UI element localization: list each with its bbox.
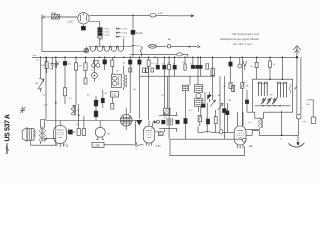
variable capacitor 2 <box>267 98 272 105</box>
wire mains to rectifier <box>60 16 78 18</box>
coil L8 <box>71 105 80 115</box>
svg-text:50: 50 <box>162 95 164 97</box>
scale lamp oval <box>150 14 156 18</box>
svg-text:3,2: 3,2 <box>87 95 90 97</box>
rectifier tube 1 62 <box>68 13 90 24</box>
junction m <box>280 134 283 140</box>
bandfilter hairpin group 2 <box>277 82 288 97</box>
resistor col x213 upper <box>211 68 214 75</box>
capacitor col x164 <box>162 57 166 69</box>
padder rect pair x144 <box>143 68 149 73</box>
svg-text:Gleichspannungen gegen Chassis: Gleichspannungen gegen Chassis <box>220 37 260 41</box>
resistor pair bottom <box>76 124 85 135</box>
wire hop to earth line <box>246 131 298 136</box>
tuner internal rail <box>255 105 291 106</box>
junction top <box>132 15 134 17</box>
resistor col x270 <box>269 57 277 67</box>
svg-text:0,1: 0,1 <box>69 98 72 100</box>
label box L585 <box>92 142 104 147</box>
detector arrow and jack <box>152 120 159 123</box>
resistor col x185 <box>183 57 187 70</box>
resistor col x85 <box>84 57 87 70</box>
wire to tube F40 <box>139 144 143 146</box>
wire col x139 down <box>138 70 140 119</box>
resistor x112 lower <box>111 97 114 109</box>
cathode capacitor blob <box>81 25 85 31</box>
svg-text:1M: 1M <box>79 66 82 68</box>
svg-text:5n: 5n <box>155 63 157 65</box>
wire wavy to bus <box>126 46 142 56</box>
svg-text:3,2: 3,2 <box>43 95 46 97</box>
IF transformer dotbox C upper <box>194 85 202 93</box>
wire to mains indicator <box>133 14 150 16</box>
svg-text:FD: FD <box>270 94 273 96</box>
loudspeaker <box>22 128 35 142</box>
svg-text:An: An <box>134 88 136 91</box>
svg-text:C 20,5: C 20,5 <box>103 29 110 31</box>
coil box left low <box>198 116 201 122</box>
capacitor pair col x96 <box>94 96 98 121</box>
svg-text:1M: 1M <box>218 95 221 97</box>
IF transformer dotbox C lower <box>194 99 202 106</box>
svg-text:o.M.: o.M. <box>44 105 49 107</box>
capacitor labels column <box>116 28 128 39</box>
capacitor dark x224 <box>223 76 227 120</box>
capacitor 5n left <box>97 90 104 108</box>
svg-text:0,1: 0,1 <box>183 62 186 64</box>
capacitor col x185 low <box>184 96 187 139</box>
svg-text:4: 4 <box>302 108 303 110</box>
socket rect right edge <box>303 117 316 123</box>
trimmer col x240 <box>238 57 242 68</box>
wire col x198 <box>197 57 200 112</box>
electrolytic can <box>95 121 111 140</box>
resistor x208 blob <box>206 119 209 124</box>
capacitor col x197 <box>196 65 199 68</box>
wire col x220 down <box>219 76 221 101</box>
tuner pack outline <box>253 79 293 118</box>
svg-text:1n: 1n <box>190 63 192 65</box>
wave trap fork x245 <box>243 61 246 70</box>
svg-text:10n: 10n <box>68 64 71 66</box>
variable capacitor 1 <box>261 98 266 105</box>
wire col x164 down <box>163 66 165 108</box>
output tube right F62b <box>234 120 253 149</box>
svg-text:mm: mm <box>303 121 307 123</box>
oscillator line segment <box>132 44 201 48</box>
fuse Si <box>51 12 60 19</box>
svg-text:Alle Spannungen sind: Alle Spannungen sind <box>232 32 260 36</box>
tone capacitor floating <box>20 107 26 114</box>
tuner right coil squiggle <box>289 84 291 93</box>
svg-text:C 20,5: C 20,5 <box>103 34 110 36</box>
note text block <box>220 32 260 46</box>
svg-text:L 585: L 585 <box>93 143 100 147</box>
diode blob right of dotbox <box>208 92 212 102</box>
capacitor col x193 <box>190 57 194 68</box>
bandfilter hairpin group 1 <box>257 82 268 96</box>
padder rect x151 <box>151 68 154 72</box>
svg-text:bei 220 V netz: bei 220 V netz <box>233 42 253 46</box>
svg-text:C 30,5: C 30,5 <box>103 32 110 34</box>
socket circle <box>92 57 98 82</box>
resistor col x148 <box>147 57 155 66</box>
capacitor left of tuner <box>245 90 252 112</box>
trimmer col x56 <box>54 61 59 69</box>
svg-text:2M: 2M <box>229 100 232 102</box>
svg-text:5k: 5k <box>151 128 153 130</box>
resistor chain R stack <box>98 28 111 41</box>
IF tube F40 <box>143 121 161 148</box>
grid feed wires <box>78 104 84 126</box>
svg-text:1n: 1n <box>175 120 177 122</box>
junction transformer <box>46 138 48 140</box>
tuning slug oval <box>196 94 201 99</box>
capacitor col x139 <box>138 57 141 70</box>
left title <box>4 114 11 154</box>
wire col x56 down <box>55 57 57 145</box>
wire col x167 mid <box>167 76 169 108</box>
svg-text:US 537 A: US 537 A <box>4 114 11 142</box>
svg-text:F 62: F 62 <box>63 144 68 147</box>
bus heater line <box>32 55 299 61</box>
grid coil right of tube <box>155 131 162 133</box>
wire col x207 low <box>206 103 208 132</box>
coupling coil hatched box <box>164 108 170 119</box>
resistor col x256 <box>251 57 259 79</box>
wire feeds into tuner <box>269 57 283 80</box>
wire heater top <box>90 14 133 16</box>
wire stack to switch <box>100 38 124 46</box>
wire col x169 long down <box>168 70 170 140</box>
line second segment <box>130 53 188 57</box>
audio rail <box>104 144 134 146</box>
wire dropper <box>132 15 134 30</box>
svg-text:5n: 5n <box>50 68 52 70</box>
wire col x46 down <box>45 57 47 119</box>
wire col x201 low <box>198 106 201 132</box>
wire tube top right <box>238 112 243 122</box>
wire col x130 down <box>129 70 131 113</box>
triangle cap <box>137 120 142 125</box>
svg-text:50: 50 <box>172 63 174 65</box>
capacitor col x230 <box>229 57 232 83</box>
diode blob lower <box>201 104 205 107</box>
capacitor col x52 <box>50 57 55 70</box>
phono loop box <box>170 138 246 155</box>
wire with 220V label <box>156 13 193 17</box>
mixer tube hatched <box>120 108 132 130</box>
misc value labels <box>43 71 303 131</box>
IF transformer II <box>159 112 179 132</box>
wire anode lower <box>89 22 100 28</box>
trimmer x242 mid <box>240 57 249 126</box>
svg-text:0,1: 0,1 <box>189 110 192 112</box>
svg-text:C 20,5: C 20,5 <box>121 29 128 31</box>
wire col x205 down <box>204 92 206 103</box>
box label S62 <box>110 92 118 97</box>
resistor col x169 <box>167 57 170 69</box>
detector pot arrow <box>218 101 224 129</box>
svg-text:0,1: 0,1 <box>105 93 108 95</box>
capacitor col x130 <box>123 57 132 70</box>
capacitor col x65 <box>63 57 71 70</box>
wire col x148 down to tube <box>148 66 150 120</box>
output transformer <box>39 120 46 145</box>
resistor x65 lower <box>63 70 67 104</box>
heater line bottom <box>46 120 136 122</box>
label box 205 <box>158 132 163 136</box>
output tube F62 <box>54 121 69 148</box>
svg-text:M 44: M 44 <box>136 32 142 35</box>
oscillator coil box <box>111 74 121 87</box>
svg-text:+62: +62 <box>248 145 253 148</box>
svg-text:Ingelen: Ingelen <box>5 143 9 154</box>
mid rail <box>140 75 215 77</box>
wire right column pair <box>295 57 301 114</box>
wire col x190 <box>189 76 191 85</box>
resistor col x112 <box>111 57 114 74</box>
jack circle right <box>296 114 301 135</box>
svg-text:220V: 220V <box>158 13 164 15</box>
wire col x76 down <box>75 70 77 105</box>
capacitor col x227 <box>226 103 229 132</box>
capacitor col x201 <box>199 57 202 76</box>
svg-text:2M: 2M <box>167 63 170 65</box>
capacitor col x175 <box>172 57 176 76</box>
chassis symbol small <box>135 142 139 151</box>
IF transformer dotbox B <box>182 85 188 96</box>
capacitor M44 <box>131 30 142 35</box>
resistor x233 upper <box>232 85 235 91</box>
resistor x215 low <box>214 110 217 132</box>
resistor x85 lower <box>84 71 87 84</box>
svg-text:F 40: F 40 <box>156 145 161 148</box>
bus junctions <box>40 56 298 58</box>
svg-text:C 20,5: C 20,5 <box>121 33 128 35</box>
capacitor col x158 <box>155 57 159 69</box>
wire shelf <box>42 47 87 52</box>
svg-text:50: 50 <box>117 71 119 73</box>
svg-text:1U: 1U <box>36 60 39 62</box>
oscillator coil zigzag <box>124 66 127 90</box>
capacitor col x224 low <box>223 120 225 139</box>
wire dropper lower <box>132 34 134 57</box>
svg-text:0,2A: 0,2A <box>51 12 56 15</box>
resistor x232 mid <box>223 83 233 89</box>
wire speaker bottom <box>31 140 56 145</box>
lamp pair col x95 <box>91 61 100 72</box>
wire mains top <box>42 16 77 18</box>
pot arrow mid <box>210 57 215 106</box>
wire tuner to earth line <box>281 111 283 136</box>
svg-text:L 62: L 62 <box>68 20 74 24</box>
wire col x135 <box>135 121 137 145</box>
svg-text:1W: 1W <box>41 65 44 67</box>
svg-text:0,5: 0,5 <box>249 122 252 124</box>
resistor x207 upper <box>206 64 209 69</box>
earth electrode <box>288 135 304 147</box>
resistor squiggle right edge <box>307 99 314 117</box>
padder rect x130 <box>129 68 132 72</box>
resistor col x45 <box>41 57 48 73</box>
coupling cap after tube <box>67 130 76 134</box>
capacitor col x105 <box>103 57 107 70</box>
variable capacitor 3 <box>272 98 277 105</box>
AF line with coil <box>198 130 234 134</box>
mains plug tick <box>42 15 44 20</box>
resistor col x76 <box>74 57 81 70</box>
antenna As <box>293 46 300 59</box>
antenna coil below tab <box>246 118 262 129</box>
volume pot <box>35 57 44 92</box>
svg-text:m: m <box>280 138 282 140</box>
dial lamp La <box>84 48 89 53</box>
wire mains left drop <box>41 17 43 52</box>
svg-text:S 62: S 62 <box>111 94 117 97</box>
svg-text:1M: 1M <box>35 83 38 85</box>
svg-text:50: 50 <box>162 63 164 65</box>
junction oM <box>44 102 57 107</box>
switch wafer row <box>89 46 127 52</box>
